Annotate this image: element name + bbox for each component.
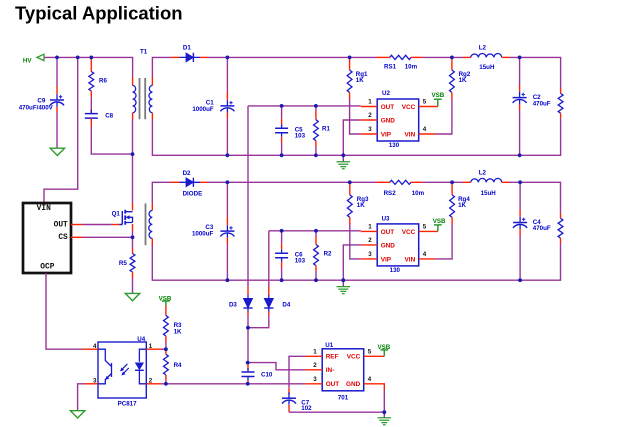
svg-text:1000uF: 1000uF [192, 231, 214, 238]
wire [519, 57, 521, 84]
wire pin2 U1 [306, 369, 323, 371]
capacitor C4 [519, 209, 521, 216]
svg-text:1: 1 [368, 224, 372, 231]
svg-text:VSB: VSB [433, 218, 446, 225]
svg-text:Q1: Q1 [112, 210, 121, 217]
wire [152, 182, 171, 203]
capacitor C9 [56, 86, 58, 94]
wire [519, 182, 521, 209]
wire [315, 147, 317, 156]
svg-text:GND: GND [346, 381, 361, 388]
svg-text:L2: L2 [479, 45, 487, 52]
wire [315, 231, 317, 236]
svg-text:RS1: RS1 [384, 64, 397, 71]
resistor RS1 [376, 56, 390, 58]
wire [226, 57, 228, 91]
svg-text:OCP: OCP [40, 263, 54, 272]
wire pin3 U2 [361, 133, 377, 135]
wire [281, 268, 283, 281]
wire [268, 231, 270, 287]
svg-text:VIN: VIN [37, 204, 51, 213]
ground earth U1 [383, 412, 385, 417]
inductor L2 [463, 56, 471, 58]
wire pin1 U2 [361, 106, 377, 108]
svg-text:C8: C8 [105, 113, 113, 120]
svg-text:VSB: VSB [432, 92, 445, 99]
svg-text:102: 102 [301, 405, 312, 412]
wire OCP [46, 273, 83, 349]
op-amp U1 [322, 349, 364, 391]
capacitor C8 [90, 109, 92, 114]
wire [152, 243, 560, 280]
wire [315, 106, 317, 111]
wire [435, 100, 452, 135]
svg-text:GND: GND [381, 117, 396, 124]
wire pin1 U1 [306, 355, 323, 357]
wire [208, 56, 376, 58]
opto U4 [98, 342, 146, 398]
wire pin4 U3 [419, 258, 435, 260]
svg-text:RS2: RS2 [384, 190, 397, 197]
ground [50, 148, 64, 155]
svg-text:10m: 10m [412, 190, 425, 197]
diode D2 [172, 181, 180, 183]
svg-text:15uH: 15uH [479, 64, 495, 71]
resistor Rg2 [451, 57, 453, 70]
inductor L2b [463, 181, 471, 183]
svg-text:VCC: VCC [402, 229, 416, 236]
svg-text:10m: 10m [405, 64, 418, 71]
resistor load1 [560, 88, 562, 93]
wire [269, 230, 361, 232]
wire [152, 119, 560, 156]
svg-text:OUT: OUT [326, 381, 340, 388]
wire [510, 57, 561, 88]
wire [132, 120, 134, 204]
wire pin2 U2 [361, 119, 377, 121]
wire OUT [71, 224, 83, 226]
svg-text:OUT: OUT [381, 104, 395, 111]
diode D1 [172, 56, 180, 58]
wire [435, 224, 452, 259]
wire IN- jog [248, 363, 306, 370]
capacitor C10 [247, 363, 249, 370]
svg-text:CS: CS [58, 233, 68, 242]
svg-text:130: 130 [390, 267, 401, 274]
svg-text:U3: U3 [382, 216, 390, 223]
svg-text:4: 4 [423, 251, 427, 258]
capacitor C3 [226, 217, 228, 225]
resistor R5 [132, 248, 134, 254]
svg-text:D3: D3 [229, 302, 237, 309]
svg-text:T1: T1 [140, 49, 148, 56]
svg-text:R2: R2 [324, 250, 332, 257]
wire pin5 U2 [419, 106, 438, 108]
svg-text:VIN: VIN [405, 256, 416, 263]
wire pin1 U4 [146, 348, 161, 350]
svg-text:C9: C9 [37, 97, 45, 104]
svg-text:VIN: VIN [405, 131, 416, 138]
wire pin3 U4 [84, 383, 98, 385]
resistor load2 [560, 214, 562, 219]
wire pin4 U4 [83, 348, 99, 350]
svg-text:REF: REF [326, 354, 339, 361]
svg-text:U2: U2 [382, 90, 390, 97]
op-amp U2 [377, 99, 419, 141]
wire [247, 106, 249, 287]
svg-text:IN-: IN- [326, 367, 335, 374]
wire pin4 U1 [364, 384, 385, 390]
svg-text:R6: R6 [99, 77, 107, 84]
svg-text:3: 3 [313, 376, 317, 383]
wire [208, 181, 376, 183]
svg-text:103: 103 [295, 258, 306, 265]
svg-text:470uF/400V: 470uF/400V [19, 105, 54, 112]
resistor Rg4 [451, 182, 453, 195]
wire [226, 244, 228, 280]
svg-text:3: 3 [368, 126, 372, 133]
svg-text:U4: U4 [137, 336, 145, 343]
resistor Rg3 [349, 182, 351, 195]
wire [281, 143, 283, 156]
svg-text:D1: D1 [183, 45, 191, 52]
wire [56, 113, 58, 149]
wire [423, 56, 463, 58]
wire [226, 182, 228, 217]
capacitor C5 [281, 118, 283, 124]
wire [132, 231, 134, 248]
wire [519, 235, 521, 280]
svg-text:D4: D4 [282, 302, 290, 309]
wire [152, 57, 171, 77]
svg-text:GND: GND [381, 242, 396, 249]
wire pin3 U1 [306, 383, 323, 385]
wire [289, 411, 384, 413]
capacitor C1 [226, 92, 228, 101]
wire pin2 U3 [361, 244, 377, 246]
wire [281, 231, 283, 243]
wire [44, 57, 133, 77]
resistor R2 [315, 236, 317, 245]
wire [423, 181, 463, 183]
wire [350, 224, 361, 259]
resistor R3 [165, 306, 167, 316]
svg-text:PC817: PC817 [118, 400, 137, 407]
svg-text:HV: HV [23, 58, 32, 65]
wire [226, 118, 228, 155]
svg-text:3: 3 [368, 251, 372, 258]
wire pin2 U4 [146, 383, 161, 385]
wire [166, 383, 306, 385]
wire pin4 U2 [419, 133, 435, 135]
wire [91, 127, 132, 155]
svg-text:C10: C10 [261, 371, 273, 378]
svg-text:4: 4 [368, 376, 372, 383]
wire [519, 111, 521, 156]
svg-text:VCC: VCC [347, 354, 361, 361]
wire [315, 271, 317, 280]
controller U5 [23, 203, 71, 273]
resistor R6 [90, 57, 92, 71]
capacitor C6 [281, 243, 283, 249]
svg-text:R1: R1 [322, 125, 330, 132]
wire [247, 316, 249, 363]
svg-text:1000uF: 1000uF [192, 106, 214, 113]
svg-text:1: 1 [313, 349, 317, 356]
svg-text:701: 701 [338, 395, 349, 402]
wire [248, 105, 361, 107]
svg-text:470uF: 470uF [533, 100, 551, 107]
svg-text:DIODE: DIODE [183, 191, 203, 198]
svg-text:1K: 1K [459, 77, 467, 84]
svg-text:1: 1 [368, 99, 372, 106]
svg-text:5: 5 [423, 99, 427, 106]
ground earth U2 [342, 155, 344, 161]
wire pin5 U1 [364, 355, 385, 357]
op-amp U3 [377, 224, 419, 266]
svg-text:R5: R5 [119, 260, 127, 267]
svg-text:1K: 1K [357, 202, 365, 209]
svg-text:15uH: 15uH [481, 190, 497, 197]
svg-text:5: 5 [368, 349, 372, 356]
ground [70, 411, 84, 418]
svg-text:103: 103 [295, 133, 306, 140]
wire CS [71, 236, 83, 238]
svg-text:130: 130 [389, 142, 400, 149]
wire [44, 57, 78, 203]
svg-text:VIP: VIP [381, 131, 392, 138]
wire [248, 316, 269, 328]
svg-text:470uF: 470uF [533, 225, 551, 232]
svg-text:OUT: OUT [54, 220, 68, 229]
wire [132, 278, 134, 293]
diode D4 [268, 287, 270, 296]
wire pin3 U3 [361, 258, 377, 260]
ground earth U3 [342, 280, 344, 286]
svg-text:OUT: OUT [381, 229, 395, 236]
resistor Rg1 [349, 57, 351, 70]
wire [281, 106, 283, 118]
svg-text:Typical Application: Typical Application [15, 3, 183, 24]
wire [350, 100, 361, 135]
svg-text:D2: D2 [183, 170, 191, 177]
resistor RS2 [376, 181, 390, 183]
diode D3 [247, 287, 249, 296]
svg-text:2: 2 [313, 362, 317, 369]
svg-text:5: 5 [423, 224, 427, 231]
svg-text:U1: U1 [325, 342, 333, 349]
wire pin1 U3 [361, 230, 377, 232]
wire [165, 343, 167, 350]
wire [165, 381, 167, 384]
wire [56, 57, 58, 86]
capacitor C7 [288, 388, 290, 394]
wire [510, 182, 561, 213]
resistor R4 [165, 349, 167, 354]
capacitor C2 [519, 85, 521, 92]
svg-text:1K: 1K [458, 202, 466, 209]
wire pin5 U3 [419, 230, 438, 232]
svg-text:L2: L2 [479, 170, 487, 177]
svg-text:4: 4 [423, 126, 427, 133]
wire [90, 97, 92, 109]
svg-text:VIP: VIP [381, 256, 392, 263]
svg-text:R4: R4 [174, 362, 182, 369]
junction dots [55, 56, 59, 60]
ground [125, 293, 139, 300]
svg-text:2: 2 [368, 237, 372, 244]
svg-text:1K: 1K [174, 329, 182, 336]
svg-text:2: 2 [368, 112, 372, 119]
resistor R1 [315, 111, 317, 120]
svg-text:1K: 1K [356, 77, 364, 84]
svg-text:VCC: VCC [402, 104, 416, 111]
